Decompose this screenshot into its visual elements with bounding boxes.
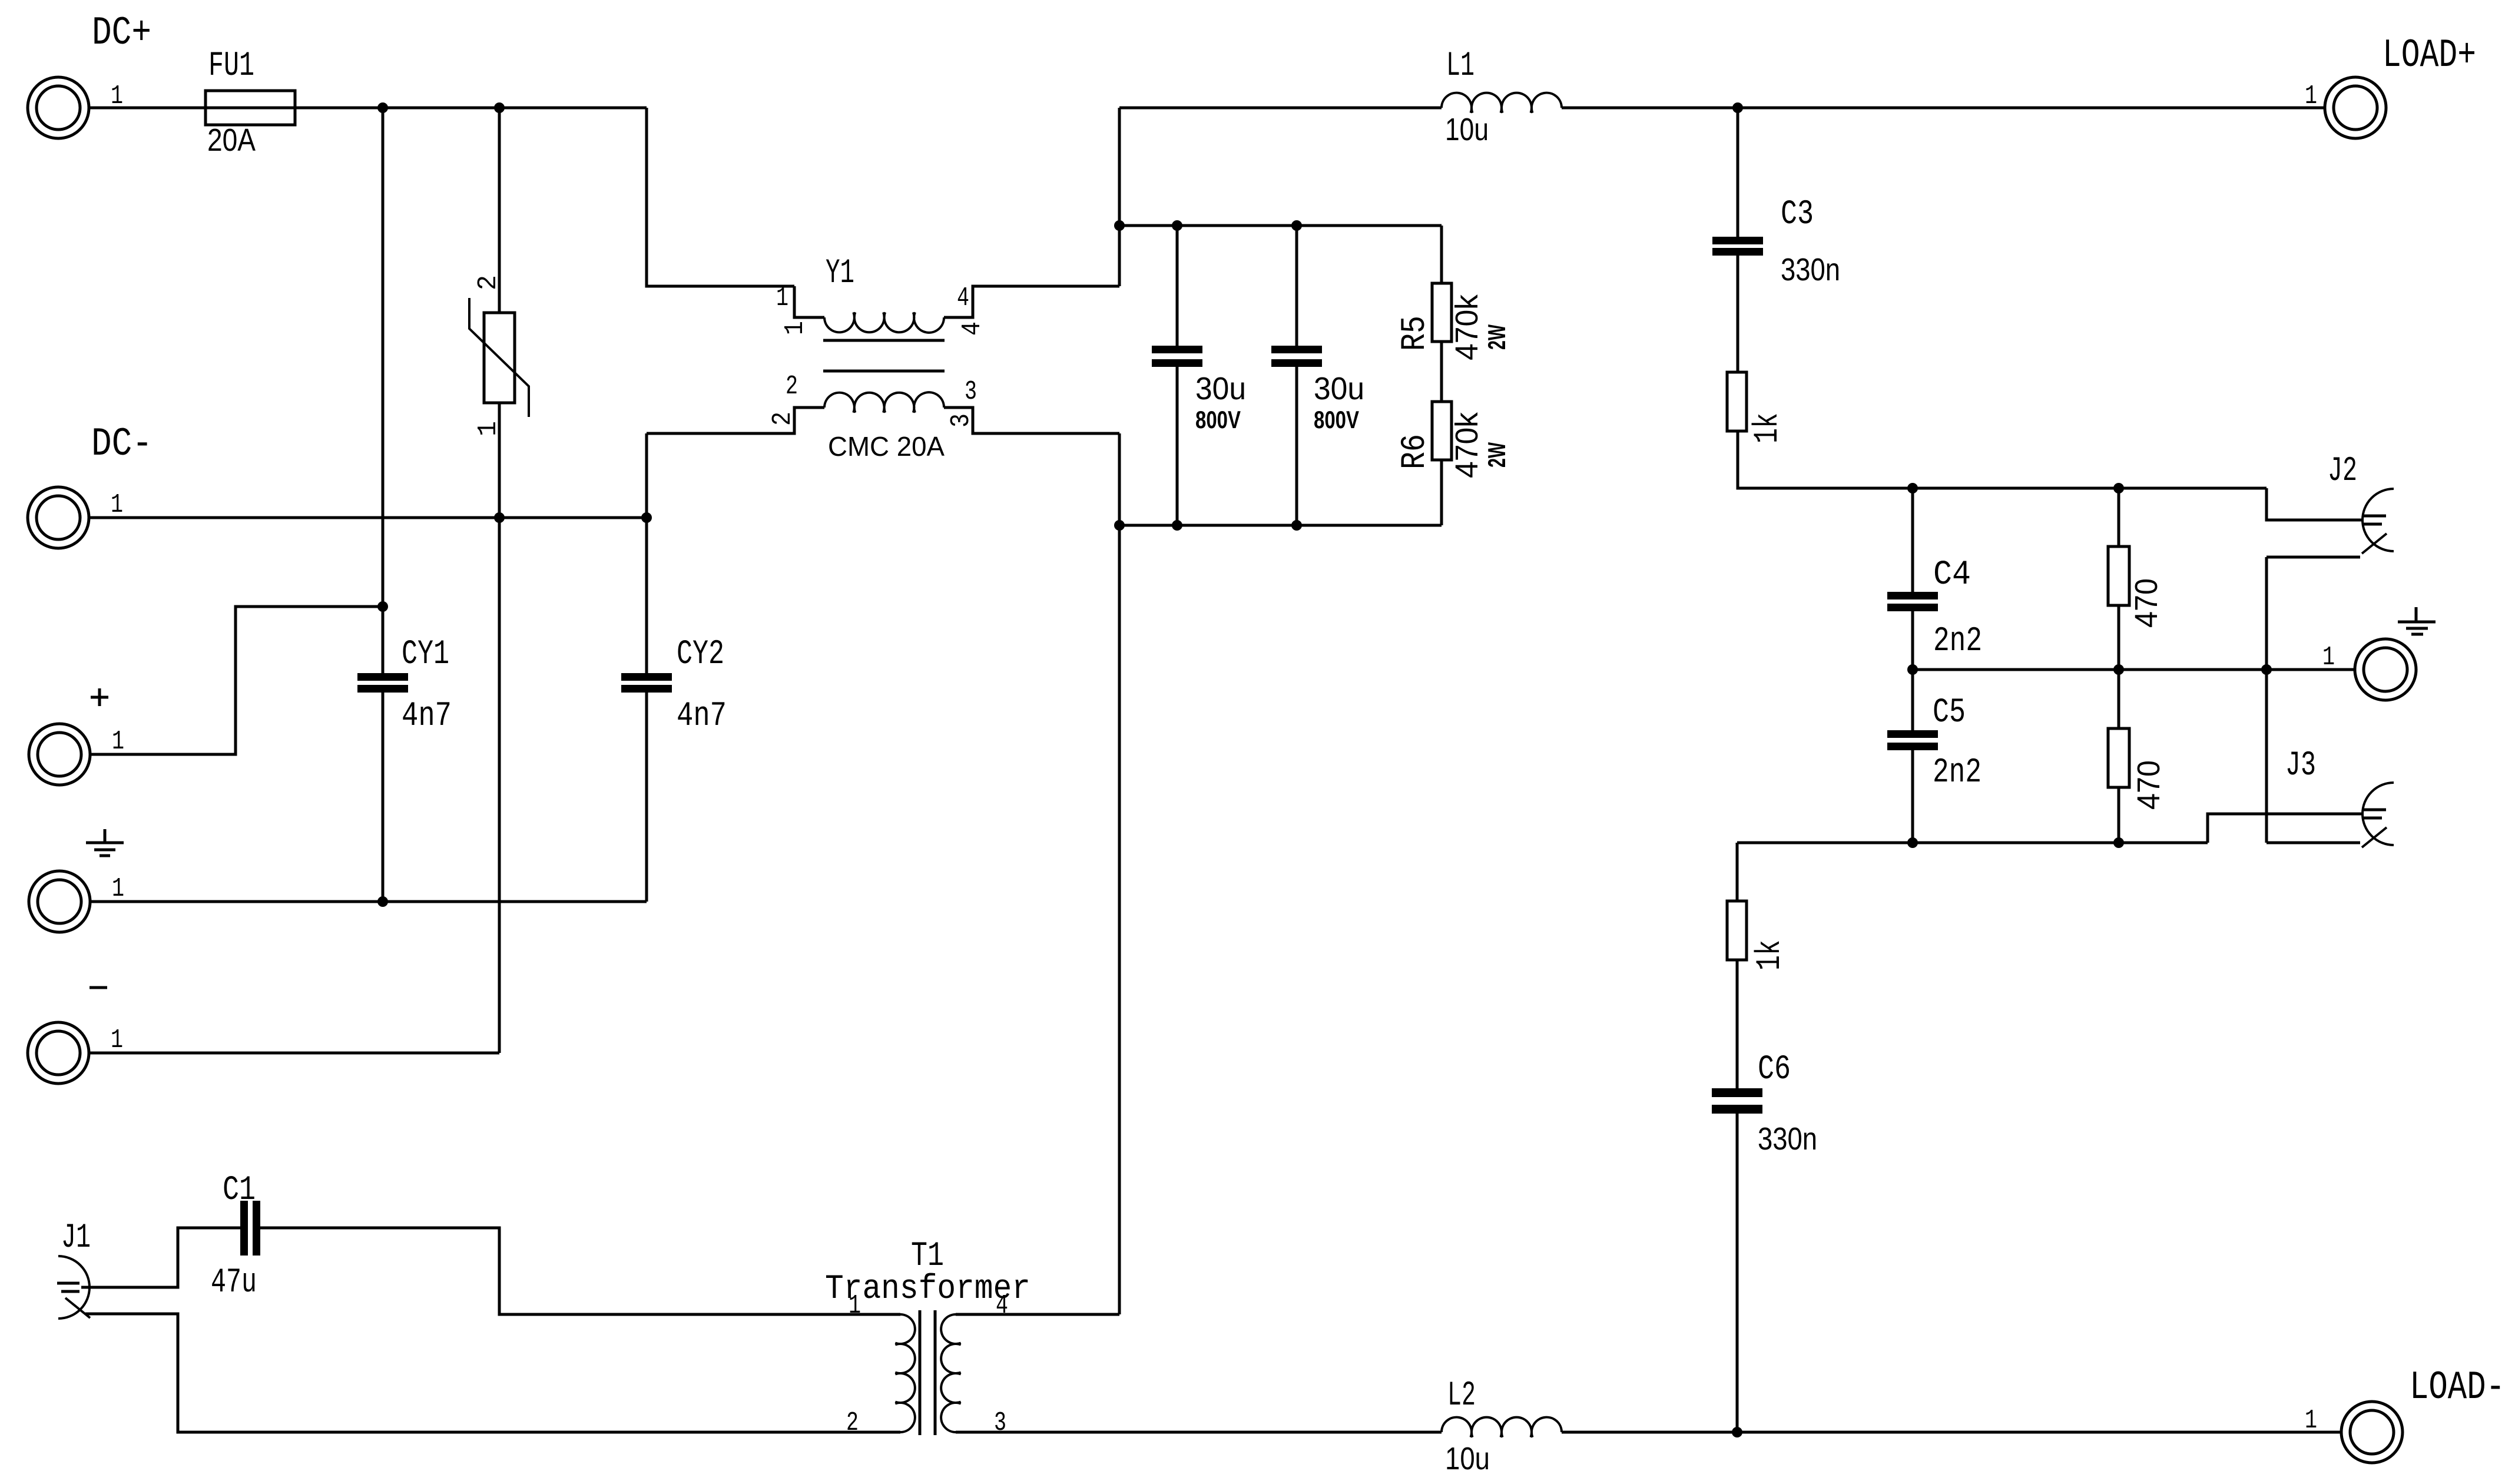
junction 470a top — [2113, 483, 2124, 493]
svg-text:CY2: CY2 — [677, 635, 724, 674]
svg-text:4n7: 4n7 — [402, 697, 452, 736]
transformer T1 secondary winding — [941, 1314, 961, 1432]
junction plus-CY1 — [377, 601, 388, 612]
svg-text:CY1: CY1 — [402, 635, 449, 674]
wire CY2 top — [645, 433, 648, 673]
svg-text:47u: 47u — [211, 1264, 257, 1302]
wire GND left — [90, 900, 647, 903]
svg-text:C3: C3 — [1781, 196, 1814, 234]
junction C3 top — [1732, 102, 1743, 113]
transformer T1 core — [920, 1310, 935, 1435]
svg-text:J3: J3 — [2285, 747, 2316, 785]
svg-text:C6: C6 — [1758, 1051, 1791, 1089]
svg-text:1: 1 — [112, 727, 124, 757]
svg-text:J2: J2 — [2328, 452, 2357, 491]
capacitor CY1 — [357, 673, 408, 681]
svg-text:470k: 470k — [1449, 294, 1485, 360]
wire 1k1 bottom to J2 rail — [1738, 431, 2267, 488]
svg-text:4: 4 — [957, 283, 969, 313]
transformer T1 primary winding — [895, 1314, 915, 1432]
capacitor C6 — [1712, 1088, 1762, 1097]
varistor RV stroke — [469, 298, 529, 417]
port DC- — [28, 487, 89, 548]
label + — [91, 688, 108, 706]
svg-text:2: 2 — [473, 275, 503, 290]
junction 470b bottom — [2113, 837, 2124, 848]
svg-text:CMC 20A: CMC 20A — [828, 431, 945, 462]
wire CY1 bottom — [382, 693, 385, 902]
svg-text:10u: 10u — [1445, 112, 1489, 147]
wire Y1 pin4 riser — [1118, 108, 1121, 286]
svg-text:4n7: 4n7 — [677, 697, 727, 736]
svg-text:800V: 800V — [1314, 406, 1359, 433]
choke Y1 pin2 step — [647, 408, 824, 433]
resistor 470 #2 — [2118, 670, 2120, 843]
svg-text:1: 1 — [2322, 642, 2335, 673]
junction 470a-470b — [2113, 664, 2124, 675]
resistor 1k #2 — [1727, 901, 1747, 960]
jack J2 — [2362, 489, 2394, 554]
svg-text:J1: J1 — [61, 1219, 91, 1257]
junction C4 top — [1907, 483, 1918, 493]
svg-text:4: 4 — [957, 322, 988, 336]
wire bottom-right rail — [1737, 842, 2208, 844]
svg-text:1: 1 — [112, 874, 124, 904]
svg-text:10u: 10u — [1445, 1441, 1490, 1476]
svg-text:C5: C5 — [1933, 694, 1966, 732]
wire center gnd rail — [1913, 668, 2355, 671]
svg-text:2: 2 — [786, 372, 798, 402]
capacitor C5 — [1911, 670, 1914, 843]
resistor R6 — [1440, 460, 1443, 525]
svg-text:4: 4 — [996, 1291, 1008, 1321]
capacitor 30u #1 — [1176, 226, 1179, 525]
svg-text:2n2: 2n2 — [1933, 622, 1982, 661]
resistor 1k #1 — [1727, 372, 1747, 431]
ground symbol right — [2398, 607, 2436, 634]
choke Y1 bottom winding — [824, 392, 944, 413]
svg-text:C4: C4 — [1933, 556, 1971, 594]
port + — [29, 724, 90, 785]
junction J2 shield gnd rail — [2261, 664, 2272, 675]
varistor RV rect — [484, 313, 515, 403]
wire C1 to T1 pin1 riser — [260, 1228, 900, 1314]
capacitor CY2 — [621, 673, 672, 681]
svg-text:800V: 800V — [1195, 406, 1241, 433]
port LOAD- — [2341, 1402, 2403, 1463]
svg-text:L2: L2 — [1447, 1377, 1476, 1415]
resistor R5 — [1440, 226, 1443, 402]
svg-text:Y1: Y1 — [826, 254, 854, 293]
port GND right — [2355, 639, 2416, 700]
port DC+ — [28, 77, 89, 138]
svg-text:330n: 330n — [1781, 252, 1840, 287]
capacitor C4 — [1911, 488, 1914, 670]
svg-text:3: 3 — [946, 413, 976, 428]
port LOAD+ — [2325, 77, 2386, 138]
junction C5 bottom — [1907, 837, 1918, 848]
svg-text:1: 1 — [849, 1291, 861, 1321]
junction GND CY1 — [377, 896, 388, 907]
wire DC+ top rail — [89, 107, 647, 110]
wire J1 center to C1 — [81, 1228, 240, 1287]
wire + to DC+ net — [90, 607, 383, 754]
wire 1k2 to C6 — [1736, 960, 1739, 1088]
svg-text:20A: 20A — [207, 122, 256, 158]
wire varistor top — [498, 108, 501, 313]
wire cap-bank top rail — [1119, 224, 1442, 227]
junction DC- CY2 — [641, 512, 652, 523]
svg-text:C1: C1 — [223, 1171, 256, 1210]
choke Y1 pin3 step — [944, 408, 1119, 433]
svg-text:FU1: FU1 — [208, 47, 254, 85]
svg-text:30u: 30u — [1195, 371, 1246, 406]
junction 30u-1 bottom — [1172, 520, 1182, 531]
junction C4-C5 — [1907, 664, 1918, 675]
junction 30u-1 top — [1172, 220, 1182, 231]
svg-text:DC+: DC+ — [92, 11, 151, 56]
junction top-B — [494, 102, 505, 113]
wire CY1 branch vertical — [382, 108, 385, 673]
wire Y1 pin3 drop to T1 — [1118, 433, 1121, 1314]
wire - to DC- net — [89, 1052, 499, 1055]
choke Y1 pin4 step — [944, 286, 1119, 317]
jack J3 — [2362, 783, 2394, 847]
inductor L1 — [1442, 93, 1562, 113]
junction drop bottom-rail — [1114, 520, 1125, 531]
fuse FU1 — [206, 91, 295, 125]
wire DC- — [89, 516, 647, 519]
junction 30u-2 top — [1291, 220, 1302, 231]
svg-text:1: 1 — [111, 1025, 123, 1055]
capacitor C1 — [240, 1201, 248, 1256]
svg-text:30u: 30u — [1314, 371, 1364, 406]
choke Y1 top winding — [824, 312, 944, 333]
wire top corner down to Y1 pin1 — [647, 108, 794, 286]
capacitor 30u #2 — [1295, 226, 1298, 525]
svg-text:1k: 1k — [1751, 940, 1790, 970]
port GND left — [29, 871, 90, 932]
svg-text:L1: L1 — [1446, 47, 1474, 85]
svg-text:330n: 330n — [1758, 1121, 1817, 1157]
wire CY2 bottom — [645, 693, 648, 902]
junction top-A — [377, 102, 388, 113]
wire varistor bottom — [498, 403, 501, 1053]
junction varistor DC- — [494, 512, 505, 523]
svg-text:3: 3 — [965, 377, 977, 407]
inductor L2 — [1442, 1417, 1562, 1437]
svg-text:1k: 1k — [1749, 413, 1787, 443]
wire L1 to LOAD+ — [1562, 107, 2325, 110]
svg-text:2n2: 2n2 — [1933, 754, 1981, 792]
resistor 470 #1 — [2118, 488, 2120, 670]
svg-text:2: 2 — [846, 1408, 859, 1438]
port - — [28, 1022, 89, 1084]
junction riser top-rail — [1114, 220, 1125, 231]
wire 1k2 top corner — [1736, 843, 1739, 901]
wire J1 shield — [85, 1314, 900, 1432]
svg-text:2: 2 — [768, 412, 798, 426]
svg-text:470k: 470k — [1449, 412, 1485, 478]
svg-text:1: 1 — [2305, 81, 2317, 111]
wire J3 center step — [2208, 814, 2364, 843]
choke Y1 core — [823, 340, 945, 371]
svg-text:LOAD+: LOAD+ — [2383, 33, 2476, 78]
choke Y1 pin1 step — [794, 286, 824, 317]
wire J2 shield — [2267, 557, 2360, 843]
svg-text:1: 1 — [776, 283, 788, 313]
svg-text:470: 470 — [2131, 760, 2166, 810]
svg-text:DC-: DC- — [91, 422, 153, 467]
junction C6 load- — [1732, 1427, 1742, 1437]
svg-text:1: 1 — [2305, 1406, 2317, 1436]
svg-text:R6: R6 — [1396, 434, 1434, 469]
label - — [90, 986, 107, 989]
svg-text:470: 470 — [2129, 578, 2164, 628]
svg-text:1: 1 — [780, 321, 810, 335]
wire J2 center step — [2267, 488, 2364, 520]
jack J1 — [57, 1256, 90, 1319]
capacitor C3 — [1737, 108, 1739, 372]
svg-text:1: 1 — [111, 490, 123, 520]
ground symbol left — [86, 829, 124, 856]
wire J3 shield — [2267, 842, 2360, 844]
wire L2 to LOAD- — [1562, 1431, 2341, 1434]
svg-text:2W: 2W — [1483, 442, 1510, 468]
wire cap-bank bottom rail — [1119, 524, 1442, 527]
wire C6 bottom — [1736, 1114, 1739, 1432]
wire T1 pin4 — [956, 1313, 1119, 1316]
svg-text:R5: R5 — [1396, 316, 1434, 351]
svg-text:LOAD-: LOAD- — [2410, 1365, 2505, 1410]
wire T1 pin3 to L2 — [956, 1431, 1442, 1434]
junction 30u-2 bottom — [1291, 520, 1302, 531]
wire top rail to L1 — [1119, 107, 1442, 110]
svg-text:2W: 2W — [1483, 324, 1510, 350]
